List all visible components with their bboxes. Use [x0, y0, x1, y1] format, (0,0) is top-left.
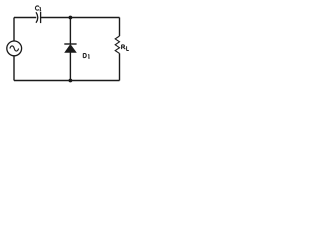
diode D1 [64, 44, 76, 52]
wire right rail lower [119, 53, 121, 80]
wire bottom rail [14, 80, 120, 82]
node junction bottom [69, 79, 73, 83]
capacitor C1 [36, 12, 41, 23]
wire left rail upper [13, 18, 15, 42]
wire top rail right segment [41, 17, 120, 19]
wire diode branch upper [69, 18, 71, 45]
node junction top [69, 16, 73, 20]
wire right rail upper [119, 18, 121, 37]
ac source [7, 41, 22, 56]
resistor RL [115, 36, 119, 53]
wire left rail lower [13, 56, 15, 81]
label C1 [35, 6, 41, 11]
label RL [122, 45, 129, 51]
wire diode branch lower [69, 52, 71, 80]
label D1 [83, 54, 89, 59]
wire top rail left segment [14, 17, 36, 19]
